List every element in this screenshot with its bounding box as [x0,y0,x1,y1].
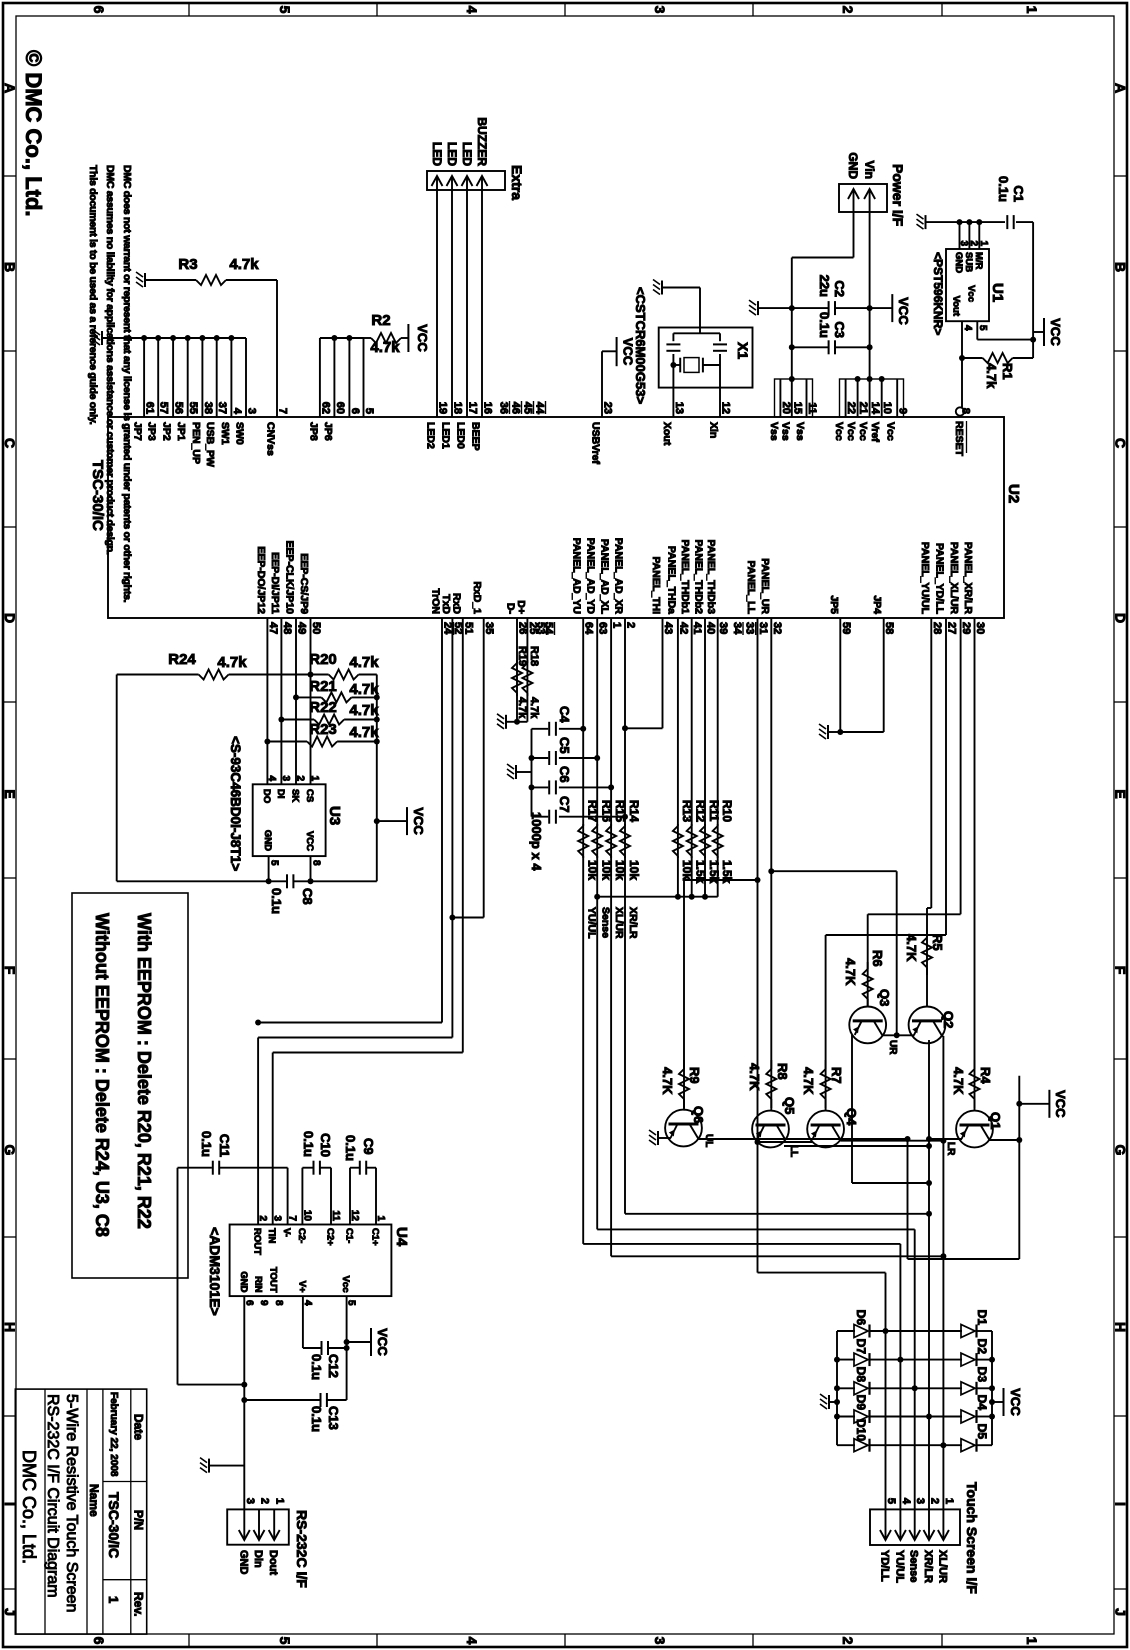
svg-text:4.7k: 4.7k [528,697,540,719]
svg-text:C8: C8 [300,888,315,905]
svg-text:55: 55 [187,402,199,414]
svg-text:35: 35 [483,622,495,634]
svg-text:SW0: SW0 [234,422,246,445]
svg-text:Vout: Vout [950,296,961,317]
svg-text:JP8: JP8 [307,422,319,441]
svg-text:TIN: TIN [266,1228,277,1243]
svg-text:R3: R3 [178,256,197,273]
svg-text:DMC Co., Ltd.: DMC Co., Ltd. [19,1450,39,1564]
svg-text:4: 4 [464,1637,480,1645]
svg-text:3: 3 [272,1215,283,1221]
svg-text:64: 64 [583,622,595,635]
svg-text:4: 4 [266,775,277,781]
svg-text:VCC: VCC [411,807,426,835]
svg-text:F: F [1113,966,1129,975]
svg-text:ROUT: ROUT [252,1228,263,1255]
svg-text:C1-: C1- [344,1228,355,1243]
svg-text:1: 1 [309,775,320,781]
svg-text:<PST596KNR>: <PST596KNR> [931,252,945,335]
svg-text:1: 1 [1024,1637,1040,1645]
svg-text:10k: 10k [627,860,641,880]
svg-text:U2: U2 [1005,484,1022,503]
svg-text:R14: R14 [627,800,641,822]
svg-text:41: 41 [691,622,703,634]
svg-text:6: 6 [91,6,107,14]
svg-text:1: 1 [611,622,623,628]
svg-text:0.1u: 0.1u [301,1131,316,1157]
svg-text:VCC: VCC [1048,318,1063,346]
svg-text:U1: U1 [989,283,1006,302]
svg-text:39: 39 [717,622,729,634]
svg-text:50: 50 [310,622,322,634]
svg-text:R12: R12 [694,800,708,822]
svg-text:0.1u: 0.1u [309,1406,324,1432]
svg-text:GND: GND [846,152,860,179]
svg-text:37: 37 [216,402,228,414]
svg-text:28: 28 [931,622,943,634]
svg-text:R9: R9 [687,1067,702,1084]
svg-text:R8: R8 [775,1063,790,1080]
svg-text:9: 9 [897,408,909,414]
svg-text:E: E [2,789,18,798]
svg-text:2: 2 [929,1498,941,1504]
svg-text:Xout: Xout [661,422,673,446]
svg-text:1000p x 4: 1000p x 4 [529,812,544,871]
svg-text:R22: R22 [309,699,337,716]
svg-text:R24: R24 [168,651,196,668]
svg-text:C2-: C2- [296,1228,307,1243]
svg-text:VCC: VCC [375,1328,390,1356]
svg-text:C6: C6 [557,766,572,783]
svg-text:10: 10 [881,402,893,414]
svg-text:Q3: Q3 [877,989,892,1006]
svg-text:0.1u: 0.1u [269,888,284,914]
svg-text:4.7K: 4.7K [801,1067,816,1095]
svg-text:SW1: SW1 [219,422,231,445]
svg-text:X1: X1 [735,342,751,359]
svg-text:U3: U3 [326,806,343,825]
svg-text:EEP-DO/JP12: EEP-DO/JP12 [255,546,267,614]
svg-text:0.1u: 0.1u [996,176,1011,202]
svg-text:YU/UL: YU/UL [893,1550,905,1583]
svg-text:R5: R5 [930,934,945,951]
svg-text:Q6: Q6 [691,1106,706,1123]
svg-text:B: B [2,262,18,272]
svg-text:LED0: LED0 [455,422,467,449]
svg-text:0.1u: 0.1u [199,1131,214,1157]
svg-text:PEN_UP: PEN_UP [190,422,202,464]
svg-text:XR/LR: XR/LR [627,907,639,939]
svg-text:3: 3 [652,1637,668,1645]
svg-text:15: 15 [791,402,803,414]
svg-text:2: 2 [257,1215,268,1221]
svg-text:C1+: C1+ [370,1228,381,1246]
svg-text:3: 3 [280,775,291,781]
svg-text:22u: 22u [817,275,832,297]
svg-text:R17: R17 [586,800,600,822]
svg-text:36: 36 [498,402,510,414]
svg-text:JP1: JP1 [175,422,187,441]
svg-text:Q2: Q2 [941,1011,956,1028]
svg-text:29: 29 [960,622,972,634]
svg-text:C9: C9 [361,1138,376,1155]
svg-text:<ADM3101E>: <ADM3101E> [207,1227,223,1316]
svg-text:Without EEPROM : Delete R24, U: Without EEPROM : Delete R24, U3, C8 [92,913,112,1237]
svg-text:U4: U4 [393,1227,410,1247]
svg-text:D: D [2,613,18,623]
svg-text:Vcc: Vcc [965,285,976,302]
svg-text:DI: DI [275,789,286,799]
svg-text:BUZZER: BUZZER [475,117,489,166]
svg-text:PANEL_THDa: PANEL_THDa [665,546,677,614]
svg-text:57: 57 [158,402,170,414]
svg-text:1: 1 [106,1596,121,1603]
svg-text:D2: D2 [975,1339,989,1355]
svg-text:59: 59 [840,622,852,634]
svg-text:XL/UR: XL/UR [936,1550,948,1583]
svg-text:R1: R1 [1000,363,1015,380]
svg-text:VCC: VCC [896,297,911,325]
svg-text:Vcc: Vcc [833,422,845,441]
svg-text:Vref: Vref [869,422,881,442]
svg-text:C7: C7 [557,796,572,813]
svg-text:R13: R13 [680,800,694,822]
svg-text:1.5k: 1.5k [694,860,708,884]
svg-text:1.5k: 1.5k [720,860,734,884]
svg-text:C3: C3 [832,321,847,338]
svg-text:1: 1 [943,1498,955,1504]
svg-text:G: G [2,1145,18,1156]
svg-text:XR/LR: XR/LR [922,1550,934,1583]
svg-text:TSC-30/IC: TSC-30/IC [106,1492,122,1558]
svg-text:R23: R23 [309,721,337,738]
svg-text:PANEL_XL/UR: PANEL_XL/UR [948,542,960,615]
svg-text:Vcc: Vcc [857,422,869,441]
svg-text:Rev.: Rev. [132,1592,146,1616]
svg-text:D: D [1113,613,1129,623]
svg-text:0.1u: 0.1u [309,1354,324,1380]
svg-text:5: 5 [363,408,375,414]
svg-text:D7: D7 [854,1339,868,1355]
svg-text:TOUT: TOUT [268,1267,279,1293]
svg-text:D9: D9 [854,1395,868,1411]
svg-text:R20: R20 [309,651,337,668]
svg-text:61: 61 [144,402,156,414]
svg-text:6: 6 [91,1637,107,1645]
svg-text:56: 56 [173,402,185,414]
svg-text:4.7k: 4.7k [984,363,999,389]
svg-text:With EEPROM : Delete R20, R21,: With EEPROM : Delete R20, R21, R22 [134,913,154,1229]
svg-text:Sense: Sense [600,907,612,938]
svg-text:16: 16 [482,402,494,414]
svg-text:Vcc: Vcc [845,422,857,441]
svg-text:14: 14 [869,402,881,415]
svg-text:February 22, 2008: February 22, 2008 [108,1392,119,1477]
svg-text:CNVss: CNVss [265,422,277,456]
svg-text:10k: 10k [613,860,627,880]
svg-text:C13: C13 [326,1406,341,1430]
svg-text:23: 23 [602,402,614,414]
svg-text:Vss: Vss [768,422,780,441]
svg-text:PANEL_THDb3: PANEL_THDb3 [705,540,717,615]
svg-text:8: 8 [960,408,972,414]
svg-text:60: 60 [334,402,346,414]
svg-text:30: 30 [974,622,986,634]
svg-text:JP6: JP6 [322,422,334,441]
svg-text:32: 32 [771,622,783,634]
svg-text:31: 31 [757,622,769,634]
svg-text:11: 11 [806,402,818,414]
svg-text:PANEL_THDb1: PANEL_THDb1 [679,540,691,615]
svg-text:D3: D3 [975,1367,989,1383]
svg-text:22: 22 [845,402,857,414]
svg-text:GND: GND [262,830,273,851]
svg-text:2: 2 [840,6,856,14]
svg-text:4.7K: 4.7K [904,934,919,962]
svg-text:44: 44 [534,402,546,415]
svg-text:Extra: Extra [509,165,525,200]
svg-text:0.1u: 0.1u [343,1135,358,1161]
svg-text:SK: SK [290,789,301,802]
svg-text:18: 18 [452,402,464,414]
svg-text:3: 3 [914,1498,926,1504]
svg-text:YD/LL: YD/LL [879,1550,891,1582]
svg-text:JP5: JP5 [828,595,840,614]
svg-text:C5: C5 [557,737,572,754]
svg-text:LR: LR [945,1142,956,1156]
svg-text:Vss: Vss [779,422,791,441]
svg-text:D10: D10 [854,1419,868,1441]
svg-text:4.7K: 4.7K [843,958,858,986]
svg-text:40: 40 [705,622,717,634]
svg-text:A: A [2,83,18,93]
svg-text:R19: R19 [516,646,528,666]
svg-text:62: 62 [319,402,331,414]
svg-text:RS-232C I/F: RS-232C I/F [294,1510,310,1588]
svg-text:3: 3 [958,240,969,246]
svg-text:GND: GND [237,1550,249,1575]
svg-text:PANEL_THI: PANEL_THI [650,556,662,614]
svg-text:RESET: RESET [953,421,965,457]
svg-text:4.7k: 4.7k [217,654,247,671]
svg-text:H: H [1113,1322,1129,1332]
svg-text:6: 6 [349,408,361,414]
svg-text:D6: D6 [854,1310,868,1326]
svg-text:Din: Din [252,1550,264,1568]
svg-text:27: 27 [946,622,958,634]
svg-text:© DMC Co., Ltd.: © DMC Co., Ltd. [21,50,46,217]
svg-text:4: 4 [464,6,480,14]
svg-text:LED: LED [460,142,474,166]
svg-text:PANEL_UR: PANEL_UR [759,558,771,614]
svg-text:VCC: VCC [1008,1388,1023,1416]
svg-text:RS-232C I/F Circuit Diagram: RS-232C I/F Circuit Diagram [44,1394,61,1598]
svg-text:4: 4 [962,325,973,331]
svg-text:8: 8 [273,1300,284,1306]
svg-text:43: 43 [662,622,674,634]
svg-text:VCC: VCC [1053,1090,1068,1118]
svg-text:19: 19 [437,402,449,414]
svg-text:4.7K: 4.7K [747,1063,762,1091]
svg-text:13: 13 [673,402,685,414]
svg-text:Vcc: Vcc [340,1276,351,1293]
svg-text:4: 4 [900,1498,912,1505]
svg-text:VCC: VCC [415,324,430,352]
svg-text:63: 63 [597,622,609,634]
svg-text:1: 1 [1024,6,1040,14]
svg-text:DMC assumes no liability for a: DMC assumes no liability for application… [104,165,116,555]
svg-text:V+: V+ [296,1281,307,1293]
svg-text:38: 38 [202,402,214,414]
svg-text:Date: Date [132,1414,146,1440]
svg-text:12: 12 [720,402,732,414]
svg-text:R10: R10 [720,800,734,822]
svg-text:1.5k: 1.5k [707,860,721,884]
svg-text:This document is to be used as: This document is to be used as a referen… [87,165,99,425]
svg-text:Touch Screen I/F: Touch Screen I/F [964,1482,980,1594]
svg-text:E: E [1113,789,1129,798]
svg-text:4.7K: 4.7K [951,1067,966,1095]
svg-text:PANEL_THDb2: PANEL_THDb2 [693,540,705,615]
svg-text:G: G [1113,1145,1129,1156]
svg-text:34: 34 [731,622,743,635]
svg-text:Dout: Dout [267,1550,279,1575]
svg-text:USB_PW: USB_PW [204,422,216,467]
svg-text:PANEL_AD_XL: PANEL_AD_XL [599,539,611,615]
svg-text:1: 1 [274,1498,286,1504]
svg-text:R11: R11 [707,800,721,822]
svg-text:Sense: Sense [908,1550,920,1582]
svg-text:JP3: JP3 [146,422,158,441]
svg-text:Vss: Vss [794,422,806,441]
svg-text:4.7K: 4.7K [660,1067,675,1095]
svg-text:2: 2 [625,622,637,628]
svg-text:D8: D8 [854,1367,868,1383]
svg-text:LED: LED [445,142,459,166]
svg-text:D-: D- [505,603,517,615]
svg-text:A: A [1113,83,1129,93]
svg-text:Name: Name [87,1484,101,1517]
svg-text:20: 20 [780,402,792,414]
svg-text:4.7k: 4.7k [349,681,379,698]
svg-text:10k: 10k [600,860,614,880]
svg-text:UR: UR [887,1040,898,1055]
svg-text:D1: D1 [975,1310,989,1326]
svg-text:Q5: Q5 [782,1097,797,1114]
svg-text:Power I/F: Power I/F [890,164,906,227]
svg-text:5: 5 [277,6,293,14]
svg-text:2: 2 [259,1498,271,1504]
svg-text:EEP-CLK/JP10: EEP-CLK/JP10 [284,540,296,614]
svg-text:42: 42 [677,622,689,634]
svg-text:5-Wire Resistive Touch Screen: 5-Wire Resistive Touch Screen [63,1394,80,1612]
svg-text:GND: GND [238,1271,249,1292]
svg-text:2: 2 [295,775,306,781]
svg-text:R4: R4 [978,1067,993,1084]
svg-text:XL/UR: XL/UR [613,907,625,939]
svg-text:4.7k: 4.7k [349,724,379,741]
svg-text:C1: C1 [1011,185,1026,202]
svg-text:3: 3 [244,1498,256,1504]
svg-text:47: 47 [267,622,279,634]
svg-text:3: 3 [246,408,258,414]
svg-text:9: 9 [258,1300,269,1306]
svg-text:3: 3 [652,6,668,14]
svg-text:5: 5 [269,860,280,866]
svg-text:D4: D4 [975,1395,989,1411]
svg-text:LED: LED [430,142,444,166]
svg-text:Vcc: Vcc [885,422,897,441]
svg-text:17: 17 [467,402,479,414]
svg-text:PANEL_XR/LR: PANEL_XR/LR [962,542,974,615]
svg-text:JP2: JP2 [161,422,173,441]
svg-text:7: 7 [277,408,289,414]
svg-text:PANEL_YU/UL: PANEL_YU/UL [919,542,931,615]
svg-text:PANEL_YD/LL: PANEL_YD/LL [934,543,946,615]
svg-text:RxD_1: RxD_1 [471,581,483,614]
svg-text:Q1: Q1 [988,1112,1003,1129]
svg-text:4: 4 [231,408,243,415]
svg-text:<S-93C46BD0I-J8T1>: <S-93C46BD0I-J8T1> [228,736,243,871]
svg-text:C2: C2 [832,280,847,297]
svg-text:LED1: LED1 [440,422,452,449]
svg-text:C: C [2,438,18,448]
svg-text:EEP-DI/JP11: EEP-DI/JP11 [269,552,281,614]
svg-text:D5: D5 [975,1424,989,1440]
svg-text:4.7k: 4.7k [229,256,259,273]
svg-text:2: 2 [840,1637,856,1645]
svg-text:58: 58 [883,622,895,634]
svg-text:33: 33 [744,622,756,634]
svg-text:46: 46 [510,402,522,414]
svg-text:RIN: RIN [253,1276,264,1293]
svg-text:DMC does not warrant or repres: DMC does not warrant or represent that a… [121,165,133,603]
svg-text:C4: C4 [557,706,572,723]
svg-text:JP4: JP4 [871,595,883,614]
svg-text:GND: GND [953,252,964,273]
svg-text:EEP-CS/JP9: EEP-CS/JP9 [298,553,310,614]
svg-text:LED2: LED2 [425,422,437,449]
svg-text:PANEL_AD_YD: PANEL_AD_YD [585,538,597,615]
svg-text:0.1u: 0.1u [817,312,832,338]
svg-text:53: 53 [535,622,547,634]
svg-text:49: 49 [296,622,308,634]
svg-text:PANEL_AD_YU: PANEL_AD_YU [571,538,583,614]
svg-text:C11: C11 [217,1134,232,1157]
svg-text:8: 8 [311,860,322,866]
svg-text:USBVref: USBVref [590,422,602,465]
svg-text:PANEL_LL: PANEL_LL [745,561,757,615]
svg-text:VCC: VCC [304,831,315,851]
svg-text:BEEP: BEEP [470,422,482,451]
svg-text:UL: UL [703,1134,714,1147]
svg-text:R6: R6 [870,950,885,967]
svg-text:C: C [1113,438,1129,448]
svg-text:4.7k: 4.7k [370,339,400,356]
svg-text:I: I [1113,1502,1129,1506]
svg-text:H: H [2,1322,18,1332]
svg-text:TSC-30/IC: TSC-30/IC [89,460,106,531]
svg-text:R16: R16 [600,800,614,822]
svg-text:45: 45 [522,402,534,414]
svg-text:PANEL_AD_XR: PANEL_AD_XR [613,538,625,615]
svg-text:B: B [1113,262,1129,272]
svg-text:R7: R7 [829,1067,844,1084]
svg-text:TrON: TrON [430,588,442,614]
svg-text:R2: R2 [371,312,390,329]
svg-text:C12: C12 [326,1354,341,1378]
svg-text:R18: R18 [528,646,540,666]
